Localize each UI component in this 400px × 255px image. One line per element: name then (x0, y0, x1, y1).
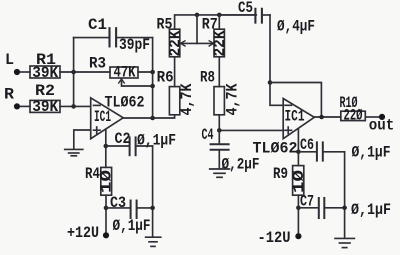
wire V- node down to R9 (297, 152, 299, 166)
wire R8 bottom to noninverting input 2 (219, 115, 283, 131)
capacitor C4 (211, 130, 229, 168)
capacitor C2 (106, 137, 153, 155)
wire L to R1 (20, 71, 30, 73)
node junction inverting input 1 (71, 70, 76, 75)
svg-text:IC1: IC1 (94, 108, 111, 126)
capacitor C3 (106, 201, 153, 219)
svg-text:39K: 39K (32, 64, 59, 82)
resistor R4 (101, 167, 112, 195)
resistor R10 (341, 111, 366, 120)
svg-text:R3: R3 (89, 55, 106, 73)
svg-text:22K: 22K (167, 30, 185, 57)
svg-text:IC1: IC1 (285, 108, 305, 126)
wire wiper vertical (196, 15, 198, 44)
svg-text:C3: C3 (110, 194, 126, 212)
resistor R2 (30, 100, 60, 112)
wire C6 right down (344, 152, 346, 238)
node dot output 2 (319, 115, 324, 120)
ground G4 (335, 238, 354, 247)
svg-text:C6: C6 (300, 136, 314, 154)
svg-text:22K: 22K (211, 30, 229, 57)
wire feedback 2 (270, 83, 321, 118)
wire feedback vertical C1 to output (152, 38, 154, 118)
wire R1 to R3 through node (60, 71, 110, 73)
wire R3 wiper to feedback (119, 79, 153, 86)
wire plus input to ground (74, 130, 91, 149)
wire R to R2 (20, 105, 30, 107)
node dot output feedback junction (150, 116, 155, 121)
resistor R9 (293, 166, 304, 196)
svg-text:C1: C1 (88, 16, 107, 34)
wire vertical node to C1 (73, 38, 75, 107)
op-amp U1a plus sign (94, 127, 101, 133)
svg-text:R9: R9 (273, 165, 288, 183)
svg-text:Ø,1µF: Ø,1µF (352, 144, 391, 162)
node dot R7 top (217, 13, 222, 18)
svg-text:1Ø: 1Ø (98, 170, 116, 193)
op-amp U1b plus sign (285, 127, 292, 133)
svg-text:-12U: -12U (258, 229, 291, 247)
svg-text:4,7K: 4,7K (224, 83, 242, 116)
svg-text:Ø,1µF: Ø,1µF (137, 132, 176, 150)
ground G2 (210, 169, 230, 177)
wire R7 to R8 (218, 57, 220, 87)
svg-text:Ø,2µF: Ø,2µF (222, 155, 260, 173)
node dot C7 right junction (342, 206, 347, 211)
node dot R3 right (150, 70, 155, 75)
svg-text:C2: C2 (115, 130, 131, 148)
capacitor C5 (219, 9, 270, 23)
wire R4 to +12V (105, 195, 107, 235)
op-amp U1b triangle (283, 99, 314, 139)
svg-text:4,7K: 4,7K (178, 83, 196, 116)
svg-text:+12U: +12U (67, 224, 99, 242)
svg-text:Ø,4µF: Ø,4µF (277, 18, 315, 36)
resistor R8 (214, 87, 224, 115)
node dot feedback 2 (268, 80, 273, 85)
svg-text:39pF: 39pF (119, 36, 150, 54)
wire op-amp1 V+ pin (105, 129, 107, 146)
wire R3 right (138, 71, 153, 73)
wire V+ node down to R4 (105, 146, 107, 167)
svg-text:R: R (4, 86, 15, 104)
node R input terminal (14, 103, 20, 109)
ground G3 (146, 237, 161, 246)
node -12V terminal (295, 233, 301, 239)
wire wiper R5-R7 with arrows (181, 41, 214, 46)
node dot V- pin junction (296, 150, 301, 155)
wire C5 down to inverting input 2 (270, 15, 283, 105)
svg-text:C7: C7 (300, 193, 314, 211)
node dot C4 junction (217, 128, 222, 133)
node L input terminal (14, 69, 20, 75)
node dot wiper join (150, 84, 155, 89)
node dot C7 left junction (296, 206, 301, 211)
node junction dot on inverting line (71, 104, 76, 109)
wire R2 to op-amp inverting input (60, 105, 91, 107)
wire R6 to R5 (174, 57, 176, 87)
node dot C3 right junction (150, 206, 155, 211)
svg-text:R6: R6 (157, 69, 174, 87)
op-amp U1b minus sign (285, 104, 292, 106)
node dot wiper rail (195, 13, 200, 18)
svg-text:Ø,1µF: Ø,1µF (351, 201, 391, 219)
capacitor C6 (298, 142, 344, 160)
svg-text:C5: C5 (238, 0, 253, 17)
resistor R1 (30, 66, 60, 78)
node out terminal (379, 114, 385, 120)
svg-text:1Ø: 1Ø (290, 170, 308, 193)
op-amp U1a triangle (91, 98, 124, 139)
svg-text:C4: C4 (202, 126, 214, 144)
capacitor C1 (74, 28, 153, 46)
capacitor C7 (298, 198, 344, 218)
resistor R7 (pot body) (214, 29, 224, 57)
svg-text:39K: 39K (32, 98, 59, 116)
node dot V+ pin junction (104, 144, 109, 149)
svg-text:R8: R8 (200, 69, 215, 87)
wire op-amp1 output (123, 115, 174, 118)
svg-text:22Ø: 22Ø (344, 107, 363, 125)
svg-text:47K: 47K (114, 64, 137, 82)
wire op-amp2 V- pin (297, 129, 299, 152)
node +12V terminal (103, 232, 109, 238)
wire R7 top stub (218, 15, 220, 29)
wire C2 right down to C3 (152, 146, 154, 237)
wire op-amp2 output (314, 116, 341, 118)
wire R9 to -12V (297, 195, 299, 236)
resistor R3 (110, 67, 138, 78)
node dot C3 left junction (104, 206, 109, 211)
resistor R5 (pot body) (169, 29, 179, 57)
wire R10 to out (365, 116, 379, 118)
resistor R6 (169, 87, 179, 115)
wire R5 top to rail (175, 15, 257, 29)
svg-text:out: out (369, 117, 395, 135)
svg-text:L: L (5, 51, 14, 69)
op-amp U1a minus sign (94, 104, 101, 106)
svg-text:Ø,1µF: Ø,1µF (113, 217, 151, 235)
ground G1 (65, 149, 83, 155)
